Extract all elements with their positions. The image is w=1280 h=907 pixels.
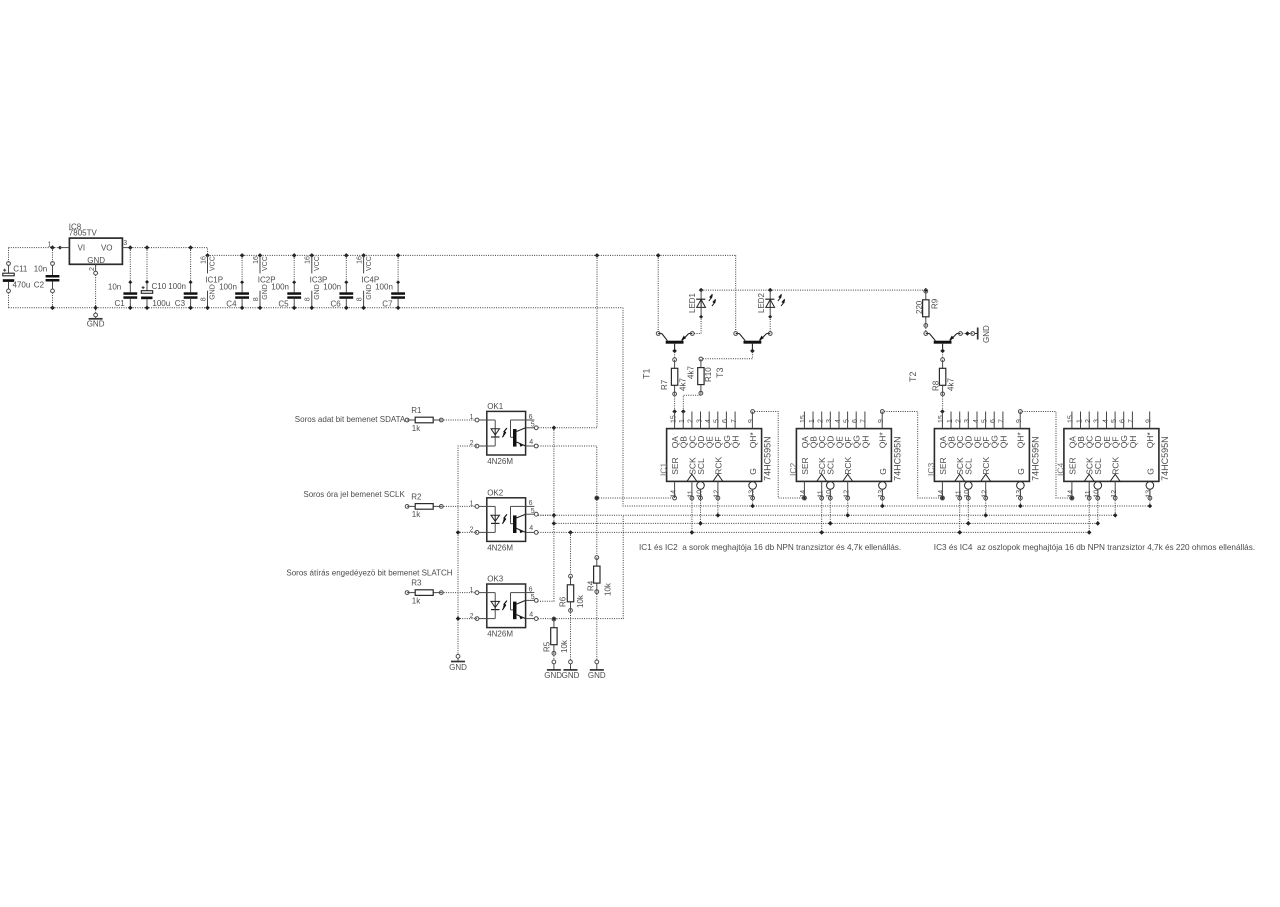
svg-text:R9: R9 <box>930 298 939 309</box>
wire opto cathode return column to ground <box>456 446 477 658</box>
svg-text:8: 8 <box>305 297 312 301</box>
capacitor C7 100n <box>375 255 405 310</box>
input label R1 <box>295 415 406 424</box>
svg-text:5: 5 <box>981 419 988 423</box>
svg-text:1: 1 <box>470 501 474 508</box>
resistor R4 10k <box>587 556 613 596</box>
wire VCC rail y255 <box>205 253 736 258</box>
resistor R9 220 <box>915 288 940 328</box>
wire RCK bus <box>538 514 1115 516</box>
svg-text:12: 12 <box>714 490 721 498</box>
wire R4 to ground <box>595 592 599 670</box>
svg-text:3: 3 <box>123 240 127 247</box>
svg-text:2: 2 <box>956 419 963 423</box>
caption IC3 IC4 note <box>934 543 1255 552</box>
wire QH* of IC1 to SER of IC2 <box>751 410 807 500</box>
svg-text:220: 220 <box>915 300 924 314</box>
wires IC4 control pins to buses <box>1087 498 1152 535</box>
svg-text:IC1 és IC2 a sorok meghajtója: IC1 és IC2 a sorok meghajtója 16 db NPN … <box>639 543 901 552</box>
LED LED1 <box>688 288 716 319</box>
svg-text:4N26M: 4N26M <box>487 457 513 466</box>
svg-text:OK1: OK1 <box>487 402 504 411</box>
svg-text:VI: VI <box>78 244 86 253</box>
svg-text:4N26M: 4N26M <box>487 543 513 552</box>
svg-text:5: 5 <box>531 594 535 601</box>
svg-text:IC3 és IC4 az oszlopok meghaj: IC3 és IC4 az oszlopok meghajtója 16 db … <box>934 543 1255 552</box>
resistor R10 4k7 <box>687 357 714 395</box>
svg-text:1: 1 <box>470 587 474 594</box>
svg-text:C11: C11 <box>13 264 28 273</box>
svg-text:VO: VO <box>101 244 113 253</box>
resistor R1 1k <box>405 406 443 433</box>
wire RCK riser from OK3 pin4 <box>538 515 623 618</box>
svg-text:IC3: IC3 <box>926 463 936 477</box>
svg-text:15: 15 <box>670 415 677 423</box>
svg-text:GND: GND <box>210 284 217 300</box>
wire R8 to IC3 pin15 QA <box>940 394 945 414</box>
wire R7 to IC1 pin15 QA <box>672 394 677 414</box>
shift register IC3 74HC595N <box>926 412 1040 500</box>
svg-text:Soros óra jel bemenet SCLK: Soros óra jel bemenet SCLK <box>303 490 405 499</box>
svg-text:6: 6 <box>529 586 533 593</box>
svg-text:VCC: VCC <box>366 256 373 271</box>
svg-text:4: 4 <box>529 439 533 446</box>
svg-text:3: 3 <box>826 419 833 423</box>
svg-text:RCK: RCK <box>1111 457 1121 475</box>
svg-text:16: 16 <box>200 256 207 264</box>
svg-text:G: G <box>1145 468 1155 475</box>
svg-text:G: G <box>878 468 888 475</box>
svg-text:100n: 100n <box>168 282 186 291</box>
wire T3 base to R10 <box>703 352 753 359</box>
svg-text:2: 2 <box>688 419 695 423</box>
svg-text:SCL: SCL <box>826 458 836 475</box>
capacitor C1 10n <box>108 248 137 311</box>
svg-text:74HC595N: 74HC595N <box>763 436 773 481</box>
ground symbol right of T2 rotated <box>975 325 991 343</box>
svg-text:10n: 10n <box>34 264 47 273</box>
svg-text:C3: C3 <box>175 299 186 308</box>
transistor T1 PNP <box>642 332 695 379</box>
svg-text:R2: R2 <box>411 492 422 501</box>
optocoupler OK2 4N26M <box>470 488 539 552</box>
svg-text:QH: QH <box>1128 436 1138 449</box>
svg-text:GND: GND <box>544 671 562 680</box>
input label R3 <box>286 569 452 578</box>
svg-text:1: 1 <box>947 419 954 423</box>
ground symbol below R6 <box>562 670 580 680</box>
ground symbol below R5 <box>544 670 562 680</box>
svg-text:8: 8 <box>200 297 207 301</box>
svg-text:4: 4 <box>529 525 533 532</box>
resistor R3 1k <box>405 579 443 606</box>
svg-text:6: 6 <box>722 419 729 423</box>
svg-text:GND: GND <box>87 320 105 329</box>
wire VO output rail y247 <box>128 245 208 255</box>
transistor T3 PNP <box>715 332 772 378</box>
svg-text:6: 6 <box>529 500 533 507</box>
wire G bus from GND rail <box>623 308 1150 506</box>
svg-text:QH: QH <box>998 436 1008 449</box>
svg-text:3: 3 <box>1094 419 1101 423</box>
svg-text:11: 11 <box>956 490 963 497</box>
svg-text:GND: GND <box>366 284 373 300</box>
wire R6 to ground <box>569 610 573 669</box>
wire QH* of IC3 to SER of IC4 <box>1018 410 1073 500</box>
svg-text:74HC595N: 74HC595N <box>892 436 902 481</box>
svg-text:R4: R4 <box>587 580 596 591</box>
svg-text:8: 8 <box>253 297 260 301</box>
svg-text:R3: R3 <box>411 579 422 588</box>
capacitor C4 100n <box>219 255 249 310</box>
svg-text:R8: R8 <box>931 380 940 391</box>
svg-text:OK2: OK2 <box>487 488 504 497</box>
wire SER row to IC1 pin14 <box>595 496 673 500</box>
svg-text:1: 1 <box>809 419 816 423</box>
svg-text:R1: R1 <box>411 406 422 415</box>
svg-text:11: 11 <box>818 490 825 497</box>
svg-text:1: 1 <box>1076 419 1083 423</box>
wire R9 to T2 collector <box>925 325 927 331</box>
svg-text:Soros átírás engedéyezö bit be: Soros átírás engedéyezö bit bemenet SLAT… <box>286 569 452 578</box>
svg-text:SER: SER <box>800 457 810 474</box>
resistor R8 4k7 <box>931 358 955 396</box>
svg-text:GND: GND <box>588 671 606 680</box>
svg-text:100n: 100n <box>375 282 393 291</box>
wire T1 base to R7 <box>674 352 676 358</box>
svg-text:2: 2 <box>1085 419 1092 423</box>
svg-text:10: 10 <box>826 490 833 498</box>
wire regulator GND pin to ground <box>89 264 98 317</box>
svg-text:2: 2 <box>89 267 96 271</box>
wire SCK bus from OK2 pin4 <box>538 530 1089 535</box>
optocoupler OK1 4N26M <box>470 402 539 466</box>
wires IC2 control pins to buses <box>819 498 884 535</box>
svg-text:10: 10 <box>964 490 971 498</box>
svg-text:RCK: RCK <box>981 457 991 475</box>
power pins IC1P VCC pin16 GND pin8 <box>200 255 223 310</box>
svg-text:SCL: SCL <box>1093 458 1103 475</box>
shift register IC4 74HC595N <box>1056 412 1170 500</box>
svg-text:GND: GND <box>262 284 269 300</box>
svg-text:7: 7 <box>999 419 1006 423</box>
svg-text:5: 5 <box>531 422 535 429</box>
power pins IC2P VCC pin16 GND pin8 <box>253 255 276 310</box>
svg-text:100n: 100n <box>323 282 341 291</box>
svg-text:8: 8 <box>356 297 363 301</box>
svg-text:9: 9 <box>1016 419 1023 423</box>
svg-text:4k7: 4k7 <box>687 366 696 379</box>
svg-text:5: 5 <box>714 419 721 423</box>
wire QH* of IC2 to SER of IC3 <box>880 410 944 500</box>
svg-text:QH*: QH* <box>878 432 888 449</box>
svg-text:4k7: 4k7 <box>947 378 956 391</box>
svg-text:G: G <box>748 468 758 475</box>
shift register IC2 74HC595N <box>788 412 902 500</box>
svg-text:4: 4 <box>1102 419 1109 423</box>
svg-text:3: 3 <box>964 419 971 423</box>
ground symbol below R4 <box>588 670 606 680</box>
svg-text:C6: C6 <box>331 299 342 308</box>
wire R3 to optocoupler pin1 <box>441 592 475 594</box>
svg-text:C10: C10 <box>152 282 167 291</box>
svg-text:SCL: SCL <box>696 458 706 475</box>
svg-text:100n: 100n <box>271 282 289 291</box>
wire VCC drop to OK1 pin5 <box>538 255 597 430</box>
svg-text:1k: 1k <box>412 596 421 605</box>
svg-text:5: 5 <box>1111 419 1118 423</box>
svg-text:GND: GND <box>982 325 991 343</box>
wire R2 to optocoupler pin1 <box>441 505 475 507</box>
svg-text:7: 7 <box>731 419 738 423</box>
wire input rail from C11 to regulator VI <box>9 245 63 250</box>
svg-text:15: 15 <box>938 415 945 423</box>
svg-text:C1: C1 <box>115 299 126 308</box>
svg-text:1: 1 <box>470 414 474 421</box>
svg-text:10: 10 <box>696 490 703 498</box>
svg-text:16: 16 <box>356 256 363 264</box>
svg-text:13: 13 <box>748 490 755 498</box>
svg-text:100n: 100n <box>219 282 237 291</box>
resistor R5 10k <box>542 616 569 655</box>
svg-text:10k: 10k <box>560 639 569 653</box>
svg-text:4N26M: 4N26M <box>487 630 513 639</box>
optocoupler OK3 4N26M <box>470 575 539 639</box>
svg-text:74HC595N: 74HC595N <box>1160 436 1170 481</box>
power pins IC4P VCC pin16 GND pin8 <box>356 255 379 310</box>
wire VCC drop to T1 collector <box>657 255 659 331</box>
svg-text:R7: R7 <box>660 379 669 390</box>
svg-text:12: 12 <box>982 490 989 498</box>
svg-text:10n: 10n <box>108 283 121 292</box>
svg-text:IC2: IC2 <box>788 463 798 477</box>
svg-text:VCC: VCC <box>314 256 321 271</box>
svg-text:GND: GND <box>314 284 321 300</box>
ground symbol below regulator <box>87 317 105 329</box>
svg-text:6: 6 <box>1120 419 1127 423</box>
svg-text:IC4: IC4 <box>1056 463 1066 477</box>
svg-text:C2: C2 <box>34 281 45 290</box>
svg-text:1: 1 <box>679 419 686 423</box>
wire collector tie column V1 to OK2 OK3 pin5 <box>538 428 556 601</box>
svg-text:GND: GND <box>449 663 467 672</box>
power pins IC3P VCC pin16 GND pin8 <box>305 255 328 310</box>
svg-text:LED2: LED2 <box>757 292 766 313</box>
svg-text:QH*: QH* <box>748 432 758 449</box>
svg-text:SCL: SCL <box>964 458 974 475</box>
svg-text:4: 4 <box>705 419 712 423</box>
capacitor C11 electrolytic 470u <box>3 248 30 308</box>
wire T2 base to R8 <box>942 352 944 358</box>
wire GND rail y307 <box>9 307 624 309</box>
svg-text:IC1: IC1 <box>658 463 668 477</box>
svg-text:GND: GND <box>562 671 580 680</box>
svg-text:RCK: RCK <box>713 457 723 475</box>
resistor R6 10k <box>559 532 586 612</box>
transistor T2 PNP <box>908 332 962 382</box>
svg-text:7805TV: 7805TV <box>69 229 98 238</box>
caption IC1 IC2 note <box>639 543 901 552</box>
wire LED anode row y290 <box>701 289 926 291</box>
svg-text:GND: GND <box>87 256 105 265</box>
svg-text:T2: T2 <box>908 371 918 382</box>
capacitor C5 100n <box>271 255 301 310</box>
svg-text:100u: 100u <box>152 299 170 308</box>
svg-text:15: 15 <box>800 415 807 423</box>
wire R5 to ground <box>552 653 556 670</box>
svg-text:RCK: RCK <box>843 457 853 475</box>
svg-text:4: 4 <box>973 419 980 423</box>
ground symbol below optocouplers <box>449 658 467 672</box>
svg-text:T1: T1 <box>642 368 652 379</box>
wire R1 to optocoupler pin1 <box>441 419 475 421</box>
svg-text:1k: 1k <box>412 510 421 519</box>
capacitor C3 100n <box>168 248 197 311</box>
svg-text:OK3: OK3 <box>487 575 504 584</box>
svg-text:10k: 10k <box>604 582 613 596</box>
wire VCC corner drop to T3 collector <box>735 255 737 331</box>
svg-text:7: 7 <box>861 419 868 423</box>
svg-text:13: 13 <box>1146 490 1153 498</box>
svg-text:3: 3 <box>696 419 703 423</box>
capacitor C2 10n <box>34 248 60 311</box>
svg-text:14: 14 <box>670 490 677 498</box>
svg-text:QH*: QH* <box>1016 432 1026 449</box>
input label R2 <box>303 490 405 499</box>
svg-text:Soros adat bit bemenet SDATA: Soros adat bit bemenet SDATA <box>295 415 406 424</box>
svg-text:11: 11 <box>688 490 695 497</box>
voltage regulator IC8 7805TV <box>48 223 131 266</box>
wire R10 to IC1 pin1 QB <box>681 393 701 414</box>
svg-text:2: 2 <box>818 419 825 423</box>
svg-text:9: 9 <box>1146 419 1153 423</box>
svg-text:C4: C4 <box>226 299 237 308</box>
wire OK1 pin4 to SER and R4 <box>538 446 599 556</box>
wire SCL bus <box>554 522 1098 524</box>
svg-text:SER: SER <box>938 457 948 474</box>
svg-text:9: 9 <box>878 419 885 423</box>
svg-text:SER: SER <box>670 457 680 474</box>
capacitor C10 electrolytic 100u <box>141 248 170 311</box>
svg-text:QH: QH <box>860 436 870 449</box>
svg-text:16: 16 <box>305 256 312 264</box>
svg-text:5: 5 <box>843 419 850 423</box>
svg-text:470u: 470u <box>13 281 31 290</box>
svg-text:R6: R6 <box>559 596 568 607</box>
svg-text:QH*: QH* <box>1145 432 1155 449</box>
svg-text:6: 6 <box>852 419 859 423</box>
svg-text:12: 12 <box>1111 490 1118 498</box>
svg-text:LED1: LED1 <box>688 292 697 313</box>
wires IC1 control pins to buses <box>690 498 755 535</box>
svg-text:1k: 1k <box>412 424 421 433</box>
svg-text:74HC595N: 74HC595N <box>1030 436 1040 481</box>
svg-text:5: 5 <box>531 508 535 515</box>
svg-text:VCC: VCC <box>262 256 269 271</box>
svg-text:11: 11 <box>1085 490 1092 497</box>
wire T2 emitter to ground <box>962 331 974 336</box>
svg-text:T3: T3 <box>715 367 725 378</box>
LED LED2 <box>757 288 785 332</box>
svg-text:13: 13 <box>878 490 885 498</box>
svg-text:1: 1 <box>48 241 52 248</box>
resistor R2 1k <box>405 492 443 519</box>
svg-text:QH: QH <box>731 436 741 449</box>
svg-text:9: 9 <box>748 419 755 423</box>
svg-text:4: 4 <box>835 419 842 423</box>
svg-text:C7: C7 <box>382 299 393 308</box>
wire LED1 jog from T1 emitter <box>694 319 701 334</box>
svg-text:10k: 10k <box>576 594 585 608</box>
svg-text:10: 10 <box>1094 490 1101 498</box>
capacitor C6 100n <box>323 255 353 310</box>
svg-text:VCC: VCC <box>210 256 217 271</box>
svg-text:6: 6 <box>529 414 533 421</box>
svg-text:4: 4 <box>529 611 533 618</box>
svg-text:12: 12 <box>844 490 851 498</box>
shift register IC1 74HC595N <box>658 412 772 500</box>
svg-text:16: 16 <box>253 256 260 264</box>
svg-text:6: 6 <box>990 419 997 423</box>
svg-text:15: 15 <box>1068 415 1075 423</box>
wires IC3 control pins to buses <box>957 498 1022 535</box>
svg-text:G: G <box>1016 468 1026 475</box>
resistor R7 4k7 <box>660 358 687 396</box>
svg-text:R10: R10 <box>704 367 713 382</box>
svg-text:C5: C5 <box>278 299 289 308</box>
svg-text:R5: R5 <box>542 641 551 652</box>
svg-text:7: 7 <box>1128 419 1135 423</box>
svg-text:SER: SER <box>1067 457 1077 474</box>
svg-text:13: 13 <box>1016 490 1023 498</box>
